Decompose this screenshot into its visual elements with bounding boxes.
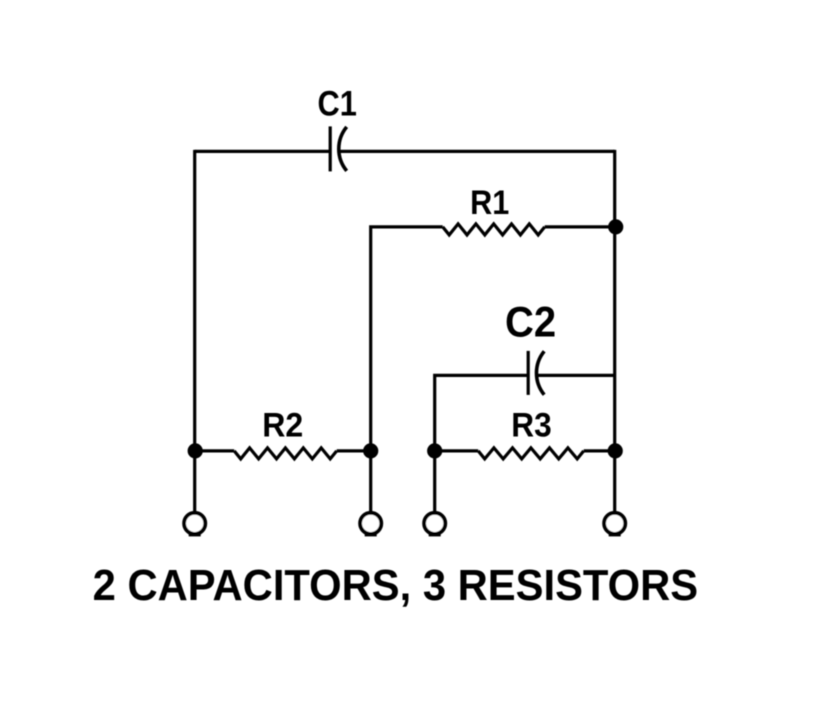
wire C2 right: [537, 374, 615, 377]
junction dot R2 right: [363, 443, 378, 458]
wire R3 right: [584, 449, 615, 452]
wire R2 left: [195, 449, 235, 452]
resistor R3: [478, 448, 584, 459]
wire stub terminal 3: [433, 451, 436, 513]
terminal 4 circle: [604, 513, 625, 534]
terminal 3 bottom tick: [429, 532, 441, 536]
resistor R2: [234, 448, 337, 459]
junction dot R2 left: [188, 443, 203, 458]
junction dot R3 left: [427, 443, 442, 458]
svg-text:R1: R1: [470, 183, 509, 221]
terminal 2 circle: [360, 513, 381, 534]
wire right vertical: [613, 150, 616, 451]
junction dot R3 right: [608, 443, 623, 458]
resistor R1: [443, 224, 545, 235]
wire R2 right: [337, 449, 371, 452]
terminal 1 bottom tick: [189, 532, 201, 536]
junction dot R1-right vertical: [608, 219, 623, 234]
wire stub terminal 4: [613, 451, 616, 513]
wire C2 left with corner down to R3: [435, 375, 528, 451]
terminal 3 circle: [424, 513, 445, 534]
wire stub terminal 1: [193, 451, 196, 513]
wire top-right horizontal from C1: [339, 150, 615, 153]
capacitor C1 curved plate: [339, 127, 347, 171]
wire left vertical: [193, 150, 196, 451]
wire R1 left with corner down to R2: [371, 227, 443, 451]
wire top-left horizontal to C1: [195, 150, 330, 153]
svg-text:R3: R3: [511, 406, 551, 444]
capacitor C1 left plate: [329, 126, 332, 171]
capacitor C2 curved plate: [536, 351, 544, 395]
svg-text:2 CAPACITORS, 3 RESISTORS: 2 CAPACITORS, 3 RESISTORS: [93, 561, 698, 610]
svg-text:C1: C1: [318, 84, 357, 123]
terminal 1 circle: [184, 513, 205, 534]
svg-text:R2: R2: [262, 406, 303, 444]
capacitor C2 left plate: [527, 351, 530, 395]
wire R3 left: [435, 449, 479, 452]
wire stub terminal 2: [369, 451, 372, 513]
terminal 2 bottom tick: [365, 532, 377, 536]
wire R1 right to junction: [545, 225, 615, 228]
svg-text:C2: C2: [505, 297, 556, 346]
terminal 4 bottom tick: [609, 532, 621, 536]
